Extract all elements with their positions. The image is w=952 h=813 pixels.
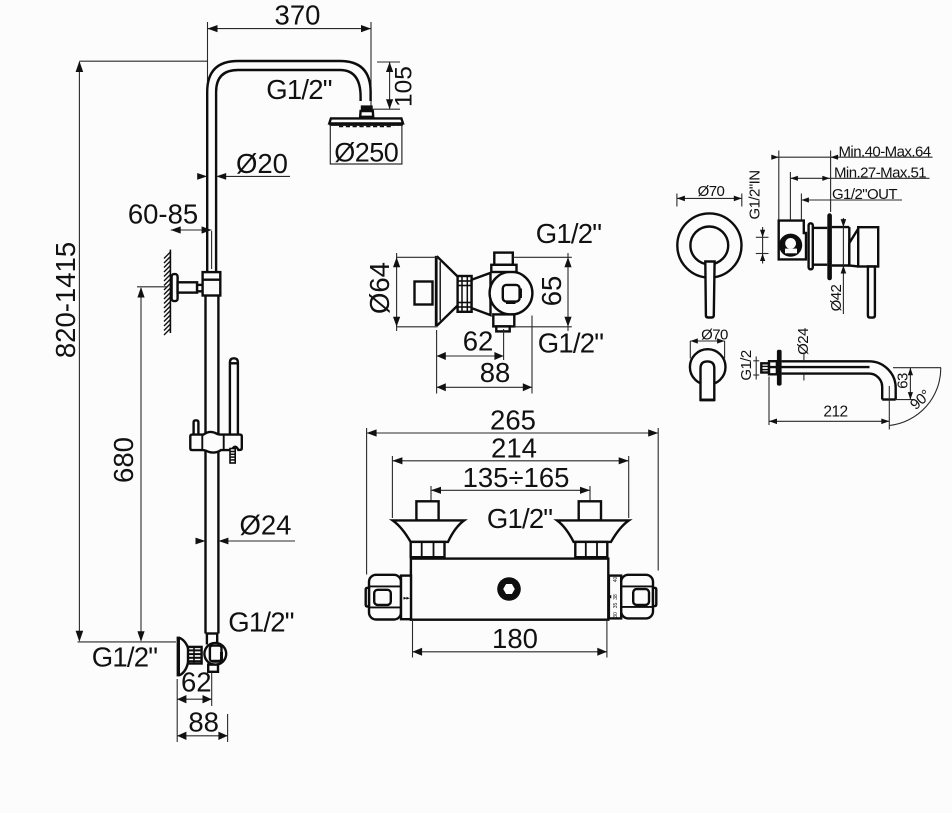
dimension 60-85 (wall bracket offset) — [128, 199, 212, 270]
dimension 180 — [413, 620, 607, 658]
svg-text:G1/2": G1/2" — [266, 74, 331, 105]
wall elbow union: flange trumpet — [178, 637, 188, 677]
hand shower holder body — [190, 432, 241, 453]
wall elbow union: body — [204, 643, 226, 672]
cm dimension G1/2 IN port (front view right) — [756, 227, 769, 264]
mixer right handle collar — [608, 576, 621, 619]
cm dimension Ø70 (top) — [677, 183, 742, 206]
svg-text:G1/2": G1/2" — [536, 218, 601, 249]
mixer left inlet nut — [411, 542, 445, 557]
valve thread nut — [458, 276, 472, 312]
dimension 265 — [367, 405, 659, 575]
cm side: valve body — [779, 221, 806, 260]
svg-text:35: 35 — [613, 603, 619, 609]
cm side: inlet port (black ring) — [779, 234, 802, 257]
hand shower holder knob — [194, 420, 199, 435]
svg-text:Ø64: Ø64 — [364, 262, 395, 314]
svg-text:Ø24: Ø24 — [795, 328, 812, 355]
svg-text:30: 30 — [613, 612, 619, 618]
svg-text:62: 62 — [181, 667, 212, 698]
shower head connector nut — [360, 105, 373, 116]
wall bracket: arm — [178, 282, 198, 292]
mixer body — [411, 559, 608, 620]
label box Ø250 — [330, 125, 402, 167]
valve body (round) — [490, 272, 533, 315]
cm front: escutcheon outer circle — [677, 213, 741, 277]
valve temperature knob (square) — [415, 282, 433, 305]
cm dimension Min.27-Max.51 — [790, 164, 929, 219]
valve flange trumpet — [436, 256, 457, 326]
dimension 62 (valve) — [437, 326, 504, 394]
svg-text:40: 40 — [613, 577, 619, 583]
cm side: escutcheon plate (white) — [809, 223, 813, 269]
svg-text:60-85: 60-85 — [128, 199, 198, 230]
wall bracket: slider block on pipe — [203, 272, 221, 295]
sp 90° arc — [889, 368, 941, 426]
mixer right eccentric cone — [557, 520, 629, 542]
hand shower wand — [230, 358, 238, 436]
valve bottom inlet nut — [493, 314, 514, 326]
svg-text:135÷165: 135÷165 — [463, 462, 570, 493]
dimension 88 (wall elbow) — [177, 707, 227, 743]
sp dimension Ø70 — [690, 327, 728, 359]
cm side: lever rod (down) — [868, 267, 875, 318]
valve top outlet nut — [491, 265, 516, 272]
svg-text:212: 212 — [823, 403, 847, 420]
svg-text:370: 370 — [275, 0, 321, 31]
dimension 65 — [513, 253, 572, 331]
dimension 62 (wall elbow) — [177, 667, 212, 743]
valve bottom inlet stub — [496, 326, 509, 331]
mixer right handle grip — [621, 575, 656, 619]
mixer center screw (hex socket) — [497, 577, 521, 601]
valve diverter square — [503, 285, 521, 303]
sp dimension Ø24 (rotated label with ticks) — [795, 328, 812, 381]
sp dimension 63 — [893, 368, 941, 400]
shower column riser pipe (upper, with top bend to shower arm) — [207, 61, 370, 272]
mixer right inlet nut — [575, 542, 607, 557]
svg-text:680: 680 — [108, 437, 139, 483]
sp thread stub — [761, 363, 769, 372]
bottom reference line — [78, 641, 177, 643]
svg-text:65: 65 — [536, 276, 567, 307]
svg-text:63: 63 — [895, 373, 912, 389]
cm side: handle body — [849, 227, 878, 266]
mixer left handle collar — [401, 576, 411, 620]
sp collar — [769, 361, 777, 374]
svg-text:G1/2": G1/2" — [92, 642, 157, 673]
mixer right inlet stub — [579, 501, 601, 520]
svg-text:88: 88 — [480, 357, 511, 388]
mixer left handle grip — [366, 575, 401, 620]
overhead shower head plate — [329, 118, 403, 125]
sp dimension 212 — [769, 377, 889, 430]
svg-text:G1/2": G1/2" — [228, 607, 293, 638]
dimension 88 (valve) — [437, 316, 532, 394]
sp wall flange (black) — [777, 350, 782, 386]
cm side: sleeve between plates — [813, 228, 828, 265]
mixer left eccentric cone — [393, 520, 465, 542]
cm front: inner ring — [690, 227, 728, 265]
shower column lower pipe (Ø24) — [206, 296, 219, 645]
svg-text:G1/2"IN: G1/2"IN — [747, 171, 764, 220]
svg-text:265: 265 — [490, 405, 536, 436]
svg-text:G1/2": G1/2" — [487, 503, 552, 534]
dimension 135÷165 — [431, 462, 590, 501]
dimension 820-1415 — [50, 61, 207, 642]
sp tube with 90° bend — [769, 361, 896, 399]
svg-text:Ø42: Ø42 — [828, 284, 845, 311]
wall section line with hatching — [164, 250, 170, 335]
dimension Ø64 — [364, 253, 438, 331]
wall bracket: collar — [197, 285, 203, 291]
svg-text:Ø250: Ø250 — [334, 138, 398, 168]
cm front: lever rod — [705, 262, 714, 318]
sp front: spout end-on — [701, 361, 715, 399]
wall bracket: flange disc — [172, 274, 178, 301]
dimension Ø20 — [197, 148, 290, 180]
wall elbow union: thread nut — [188, 647, 202, 664]
hand shower hose screw — [230, 449, 236, 464]
valve adapter cone — [472, 273, 491, 315]
cm dimension Min.40-Max.64 — [771, 143, 932, 219]
dimension Ø24 — [196, 510, 296, 545]
svg-text:G1/2: G1/2 — [738, 350, 755, 381]
cm side: finished wall plate (black) — [827, 213, 832, 280]
svg-text:820-1415: 820-1415 — [50, 242, 81, 358]
mixer left inlet stub — [416, 501, 438, 520]
svg-text:G1/2": G1/2" — [538, 328, 603, 359]
svg-text:180: 180 — [492, 623, 538, 654]
dimension 680 — [108, 287, 167, 642]
sp G1/2 thread ticks — [753, 357, 759, 380]
svg-text:Ø70: Ø70 — [698, 183, 725, 200]
cm label/leader G1/2"OUT — [801, 186, 902, 220]
cm dimension Ø42 — [828, 218, 846, 314]
sp front: escutcheon circle — [690, 349, 726, 385]
cm side: cartridge sleeve — [832, 227, 849, 265]
dimension 105 — [373, 62, 418, 109]
svg-text:Ø24: Ø24 — [240, 510, 292, 541]
valve top outlet stub — [494, 253, 513, 265]
dimension 214 — [392, 432, 628, 518]
svg-text:88: 88 — [188, 707, 219, 738]
dimension 370 — [208, 0, 372, 107]
svg-text:38: 38 — [613, 594, 619, 600]
svg-text:105: 105 — [391, 66, 418, 107]
svg-text:214: 214 — [491, 432, 537, 463]
svg-text:62: 62 — [463, 326, 494, 357]
svg-text:Ø20: Ø20 — [236, 148, 288, 179]
